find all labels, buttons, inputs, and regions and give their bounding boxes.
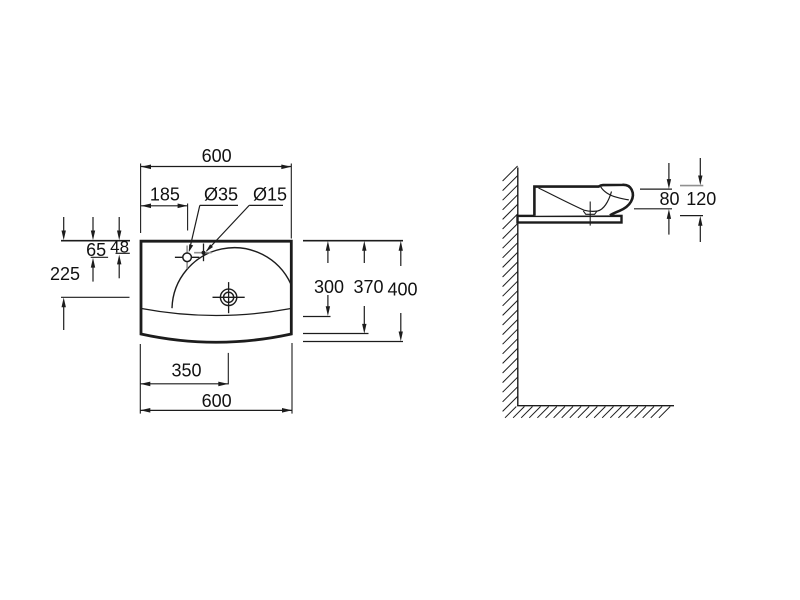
dim 300 top arrow (327, 245, 329, 264)
dim 65 target line (91, 256, 108, 258)
dim 48 target line (116, 252, 130, 254)
dim 80 bottom extension line (634, 208, 672, 210)
dim 400 top arrow (400, 245, 402, 267)
dim 48 top arrow (118, 217, 120, 237)
drain trapezoid (side view) (583, 211, 597, 214)
wall hatch (503, 166, 518, 411)
dim bottom right extension line (291, 343, 293, 414)
hole 35 crosshair vertical (186, 246, 188, 269)
hole 15 leader underline (249, 204, 283, 206)
hole 15 crosshair horizontal (194, 252, 212, 254)
drain crosshair vertical (228, 282, 230, 313)
basin outline (plan view) (141, 241, 291, 342)
wall line (517, 168, 519, 406)
svg-text:Ø15: Ø15 (253, 185, 287, 205)
bowl arc (172, 248, 291, 309)
dim 350 extension line (227, 353, 229, 385)
dim 120 top extension line (680, 185, 703, 187)
dim 300 bottom arrow (327, 295, 329, 313)
dim 185 right extension line (187, 204, 189, 231)
dim 225 bottom arrow (63, 301, 65, 330)
svg-text:225: 225 (50, 264, 80, 284)
dim 350 right arrow (218, 382, 228, 387)
dim 80 top arrow (668, 163, 670, 185)
mounting slab (518, 216, 622, 223)
dim 80 bottom arrow (668, 213, 670, 235)
svg-text:80: 80 (659, 189, 679, 209)
dim 600 bottom left arrow (140, 408, 150, 413)
dim 350 line (140, 383, 228, 385)
dim 600 top left extension line (140, 164, 142, 234)
dim 370 target line (303, 333, 369, 335)
hole 35 crosshair horizontal (175, 256, 200, 258)
dim 600 top right arrow (281, 165, 291, 170)
dim bottom left extension line (139, 344, 141, 414)
dim 65 top arrow (92, 217, 94, 237)
dim 185 right arrow (178, 204, 188, 209)
dim 185 line (141, 205, 188, 207)
dim 225 target line (61, 296, 130, 298)
dim 370 top arrow (363, 245, 365, 264)
dim 48 bottom arrow (118, 258, 120, 278)
dim 350 left arrow (140, 382, 150, 387)
hole 15 leader line (207, 205, 250, 251)
svg-text:120: 120 (686, 189, 716, 209)
drain outer circle (220, 289, 236, 305)
dim 600 top right extension line (290, 164, 292, 239)
hole 35 leader arrowhead (189, 244, 193, 252)
svg-text:350: 350 (171, 361, 201, 381)
dim 600 top line (141, 166, 291, 168)
basin deck line (side view) (601, 187, 629, 200)
dim 600 top left arrow (141, 165, 151, 170)
drain crosshair horizontal (213, 296, 245, 298)
basin profile (side view) (534, 185, 632, 216)
floor hatch (505, 407, 670, 418)
dim 120 top arrow (699, 158, 701, 182)
svg-text:600: 600 (202, 391, 232, 411)
right top-edge extension line (303, 240, 403, 242)
svg-text:370: 370 (353, 277, 383, 297)
hole 15 dot (202, 251, 206, 255)
hole 35 leader underline (200, 204, 238, 206)
dim 120 bottom extension line (680, 215, 703, 217)
dim 120 bottom arrow (699, 219, 701, 242)
dim 600 bottom line (140, 409, 292, 411)
dim 65 bottom arrow (92, 262, 94, 282)
dim 300 target line (303, 316, 331, 318)
left top-edge extension line (61, 240, 130, 242)
svg-text:600: 600 (202, 146, 232, 166)
basin front rim inner line (142, 309, 292, 316)
floor line (517, 405, 674, 407)
dim 400 target line (303, 341, 403, 343)
dim 370 bottom arrow (363, 306, 365, 330)
svg-text:185: 185 (150, 185, 180, 205)
hole 15 leader arrowhead (206, 244, 213, 252)
drain inner circle (224, 292, 234, 302)
drain centerline (side view) (589, 202, 591, 226)
basin bowl curve (side view) (539, 188, 612, 211)
svg-text:400: 400 (387, 280, 417, 300)
dim 185 left arrow (141, 204, 151, 209)
svg-text:Ø35: Ø35 (204, 185, 238, 205)
svg-text:300: 300 (314, 277, 344, 297)
hole 15 crosshair vertical (203, 244, 205, 262)
hole 35 leader line (189, 205, 200, 250)
dim 225 top arrow (63, 217, 65, 237)
dim 400 bottom arrow (400, 313, 402, 338)
dim 80 top extension line (640, 188, 672, 190)
hole 35 circle (183, 253, 192, 262)
dim 600 bottom right arrow (282, 408, 292, 413)
